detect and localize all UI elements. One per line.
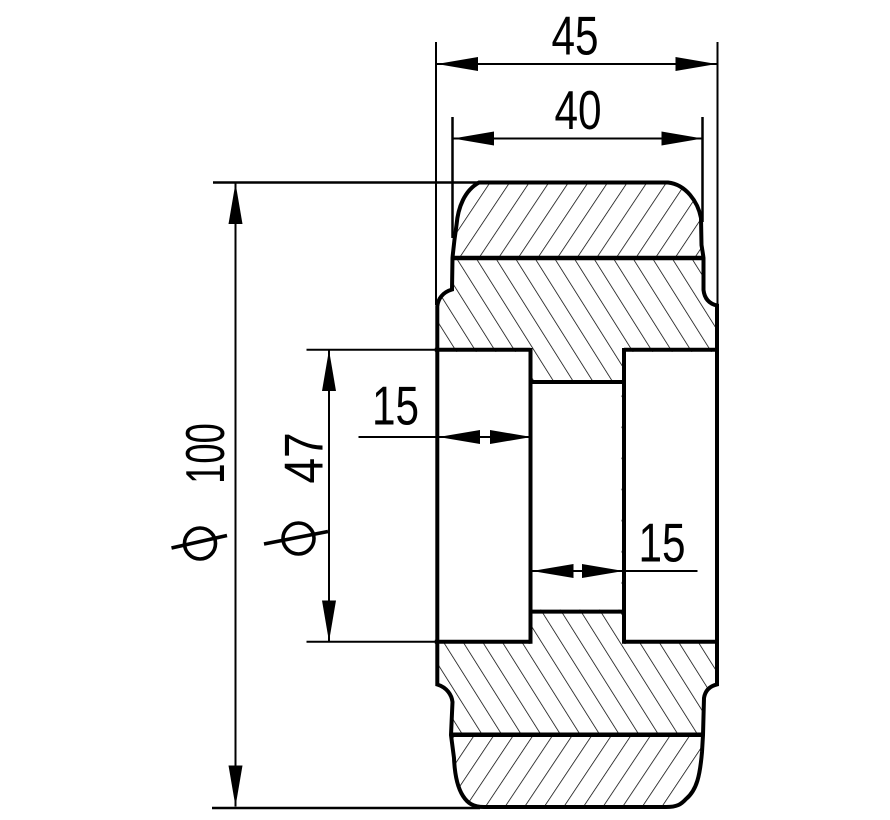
bore top edge left bbox=[435, 348, 531, 352]
central hole bottom edge bbox=[531, 610, 625, 614]
extension line dia100 top bbox=[213, 181, 480, 184]
arrow dia100 top bbox=[229, 183, 243, 224]
witness line 45 left bbox=[435, 42, 437, 305]
svg-text:45: 45 bbox=[551, 6, 598, 67]
arrow 15 left-pointing (web) bbox=[532, 564, 574, 578]
recess shoulder right bbox=[622, 348, 626, 644]
tread/core joint line bottom bbox=[451, 733, 704, 738]
dimension line 40 bbox=[453, 138, 703, 140]
dimension line 45 bbox=[437, 63, 717, 65]
right bearing recess (white) bbox=[626, 352, 715, 640]
svg-text:15: 15 bbox=[372, 376, 419, 437]
svg-text:100: 100 bbox=[174, 423, 235, 484]
extension line dia100 bottom bbox=[212, 807, 480, 810]
witness line 45 right bbox=[717, 42, 719, 305]
arrow dia47 top bbox=[322, 350, 336, 391]
bore bottom edge right bbox=[624, 640, 719, 644]
tire tread bottom cap fill bbox=[451, 733, 704, 808]
arrow 40 left bbox=[453, 132, 494, 146]
witness line 40 left bbox=[451, 117, 454, 238]
tire tread top cap fill bbox=[453, 183, 704, 261]
arrow dia47 bottom bbox=[322, 601, 336, 642]
bore bottom edge left bbox=[435, 640, 531, 644]
bore top edge right bbox=[624, 348, 719, 352]
svg-text:47: 47 bbox=[273, 432, 335, 483]
svg-text:15: 15 bbox=[638, 513, 685, 574]
diameter symbol for 100 bbox=[172, 528, 228, 559]
svg-text:40: 40 bbox=[554, 81, 601, 142]
wheel core section fill (hatched) bbox=[437, 183, 717, 808]
dimension line dia47 bbox=[328, 350, 330, 642]
arrow 15 right-pointing bbox=[490, 430, 532, 444]
arrow 45 left bbox=[437, 57, 478, 71]
diameter symbol for 47 bbox=[264, 523, 328, 554]
arrow 40 right bbox=[662, 132, 703, 146]
arrow 15 right-pointing (web) bbox=[582, 564, 624, 578]
arrow 45 right bbox=[676, 57, 717, 71]
tread/core joint line top bbox=[453, 256, 704, 261]
central hole top edge bbox=[531, 380, 625, 384]
arrow dia100 bottom bbox=[229, 766, 243, 807]
extension line dia47 top bbox=[307, 349, 438, 351]
dimension line 15 (left bearing seat depth) bbox=[359, 436, 532, 438]
recess shoulder left bbox=[529, 348, 533, 644]
wheel outline bbox=[437, 183, 717, 808]
dimension line 15 (central web width) bbox=[532, 570, 698, 572]
arrow 15 left-pointing bbox=[439, 430, 481, 444]
extension line dia47 bottom bbox=[307, 641, 438, 643]
witness line 40 right bbox=[701, 117, 704, 222]
left bearing recess (white) bbox=[439, 352, 529, 640]
dimension line dia100 bbox=[235, 183, 237, 807]
central bore hole (white) bbox=[533, 384, 622, 610]
